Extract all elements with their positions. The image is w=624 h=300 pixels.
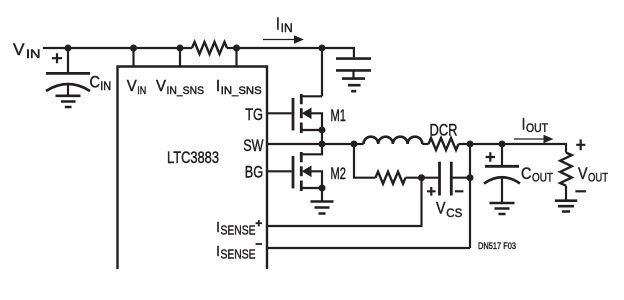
svg-text:OUT: OUT [526,123,548,135]
wire BG gate lead [267,170,292,172]
ground COUT [490,203,515,214]
polarity + of VCS [427,187,436,196]
svg-text:I: I [522,115,526,133]
resistor load VOUT [560,153,572,186]
svg-text:C: C [521,165,532,183]
svg-text:M2: M2 [331,165,347,183]
svg-text:LTC3883: LTC3883 [167,149,219,167]
polarity + of VOUT [576,139,585,150]
capacitor CS (VCS) [438,162,441,196]
wire VIN rail (top) [43,48,354,57]
wire sense branch down from SW [354,144,376,178]
resistor RSNS input sense [192,42,227,54]
svg-text:IN: IN [26,49,41,61]
svg-text:C: C [90,73,101,91]
svg-text:CS: CS [446,208,462,220]
junction VIN_SNS pin tap / RSNS left [177,45,184,52]
svg-text:I: I [216,219,220,236]
junction SW node (M1/M2) [319,141,326,148]
svg-text:V: V [156,78,166,95]
wire VOUT rail [459,144,567,153]
junction M1 source/body [319,127,326,134]
svg-text:V: V [578,165,588,183]
wire filter R to CS [406,177,440,179]
svg-text:DCR: DCR [430,121,458,139]
ground CIN [56,96,81,107]
wire VIN pin drop [132,48,134,67]
polarity + of COUT [486,152,495,161]
svg-text:IN: IN [281,23,293,35]
wire L1 to DCR [422,143,428,145]
svg-text:BG: BG [245,164,263,182]
svg-text:SW: SW [243,137,264,155]
svg-text:V: V [436,199,446,217]
ground input decoupling cap [342,79,365,92]
inductor L1 [364,137,423,144]
svg-text:I: I [216,243,220,260]
junction VIN pin tap [130,45,137,52]
svg-text:M1: M1 [331,107,347,125]
wire load to ground [565,186,567,201]
svg-text:OUT: OUT [588,173,608,185]
polarity - of VOUT [575,190,586,192]
svg-text:SENSE: SENSE [221,247,256,262]
svg-text:I: I [276,13,280,33]
wire IIN_SNS pin drop [235,48,237,67]
junction ISENSE+ tap [418,174,425,181]
svg-text:IN: IN [100,81,111,93]
transistor M1 (N-MOSFET) [293,94,322,133]
transistor M2 (N-MOSFET) [293,144,322,191]
junction M1 drain tap [319,45,326,52]
current arrow IIN [263,39,295,41]
junction COUT tap [499,141,506,148]
junction CIN tap [65,45,72,52]
capacitor COUT (polarized) [501,144,503,166]
svg-text:IN_SNS: IN_SNS [221,85,262,97]
resistor DCR [429,138,459,150]
wire M2 source to ground [321,188,323,202]
wire M1 drain to VIN rail [321,48,323,96]
ground M2 source [311,202,334,214]
svg-text:SENSE: SENSE [221,223,256,238]
svg-text:IN_SNS: IN_SNS [167,85,205,97]
junction M2 source/body [319,185,326,192]
wire CS to DCR node vertical [451,177,470,179]
junction DCR output node [467,141,474,148]
capacitor input decoupling (top right) [336,57,371,60]
junction SW sense branch tap [351,141,358,148]
junction CS right / ISENSE- vertical [467,174,474,181]
svg-text:V: V [127,78,137,95]
IC U1 LTC3883 box [118,67,268,270]
wire ISENSE+ return [267,178,422,226]
resistor R sense filter [376,172,406,184]
current arrow IOUT [514,138,544,140]
svg-text:I: I [216,78,220,95]
capacitor C1 CIN (polarized) [67,48,69,73]
svg-text:V: V [13,41,25,59]
svg-text:TG: TG [245,106,263,124]
ground VOUT load [555,201,577,212]
junction IIN_SNS pin tap / RSNS right [233,45,240,52]
wire SW rail [267,143,364,145]
polarity + of CIN [52,53,62,63]
wire ISENSE- return [267,144,470,248]
svg-text:DN517 F03: DN517 F03 [478,241,516,252]
wire TG gate lead [267,112,292,114]
polarity - of VCS [455,190,464,192]
svg-text:IN: IN [137,85,146,97]
svg-text:OUT: OUT [532,172,553,184]
wire VIN_SNS pin drop [179,48,181,67]
wire M1 source to SW [321,130,323,144]
